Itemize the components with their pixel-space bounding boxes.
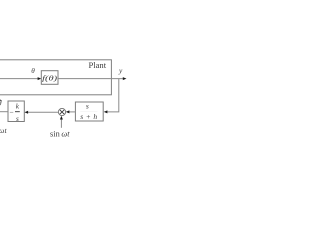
svg-text:y: y bbox=[118, 66, 123, 75]
svg-text:Plant: Plant bbox=[88, 60, 106, 70]
svg-text:f(θ): f(θ) bbox=[42, 74, 58, 83]
svg-text:sin ωt: sin ωt bbox=[50, 130, 70, 139]
node y label bbox=[118, 66, 123, 75]
wire sin wt source into multiplier (from below) bbox=[60, 116, 63, 128]
wire multiplier to integrator bbox=[24, 111, 58, 114]
svg-text:s: s bbox=[86, 102, 89, 111]
label Plant bbox=[88, 60, 106, 70]
node theta label bbox=[31, 67, 35, 75]
wire filter to multiplier bbox=[66, 110, 76, 113]
label sin wt bbox=[50, 130, 70, 139]
svg-text:a sin ωt: a sin ωt bbox=[0, 126, 7, 135]
multiplier X1 (circle with cross) bbox=[58, 108, 65, 115]
block washout filter s/(s+h) U2 bbox=[75, 102, 103, 122]
svg-text:θ: θ bbox=[31, 67, 35, 75]
node theta-hat label (clipped) bbox=[0, 99, 2, 108]
label a sin wt (clipped at left edge) bbox=[0, 126, 7, 135]
block integrator -k/s U3 bbox=[8, 101, 24, 123]
wire y output (f block to output arrow) bbox=[58, 77, 127, 80]
wire theta input (from clipped summing junction to f block) bbox=[0, 77, 41, 80]
svg-text:−: − bbox=[9, 108, 13, 117]
wire theta-hat output (integrator to clipped left edge) bbox=[0, 111, 8, 113]
wire feedback (tap on y line down and left into washout filter) bbox=[104, 79, 119, 114]
block f(theta) U1 bbox=[41, 71, 58, 85]
svg-text:s + h: s + h bbox=[80, 112, 97, 121]
svg-text:s: s bbox=[16, 115, 19, 123]
plant box (dashed boundary of Plant, clipped at left edge) bbox=[0, 60, 111, 95]
